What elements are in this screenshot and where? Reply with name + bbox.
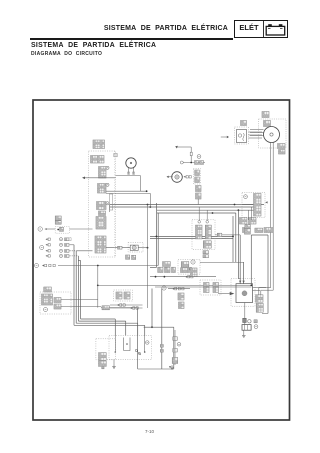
junction bus B1	[149, 206, 151, 208]
dashed box chain	[193, 169, 200, 185]
horn terminal symbols	[128, 172, 130, 174]
bus left corner to row	[150, 267, 156, 269]
wire-code row 3	[46, 250, 51, 252]
horn H1	[126, 158, 136, 168]
battery icon in tab	[265, 23, 287, 36]
circled 7	[162, 286, 166, 290]
wire ticks	[160, 345, 163, 348]
switch wire right	[215, 234, 240, 236]
arrow to turn signals	[167, 176, 169, 178]
row y162 connector pair	[195, 161, 199, 165]
wire-code row 6	[42, 264, 55, 266]
block pair right	[255, 228, 263, 232]
inner vertical wire	[161, 289, 163, 370]
circled 12	[197, 155, 201, 159]
connector block J8	[95, 236, 106, 253]
motor lead connectors	[256, 295, 263, 302]
rectifier body	[237, 130, 247, 143]
battery ground	[243, 330, 245, 333]
connector label block J1	[93, 140, 105, 149]
diode unit dashed box	[128, 242, 143, 252]
tab marker on enclosure	[114, 153, 117, 156]
connector block J7	[96, 217, 106, 230]
small blocks row top	[126, 255, 130, 259]
vertical connector riser	[97, 266, 99, 286]
cable to motor stack	[262, 312, 268, 314]
wire into battery	[244, 323, 246, 325]
arrow into relay	[230, 292, 235, 295]
connector block J4	[98, 184, 107, 194]
center vertical x147	[147, 205, 149, 309]
connector block J5	[97, 202, 107, 210]
lower box left wire	[137, 308, 139, 369]
component S2 small	[55, 216, 61, 220]
main switch row	[38, 227, 42, 231]
fuse box lead	[242, 204, 254, 206]
dashed box small pair	[200, 280, 221, 295]
chain blocks below	[196, 186, 202, 192]
magneto leads left ticks	[250, 129, 264, 131]
circled 11	[177, 343, 181, 347]
long row wire y276	[150, 276, 216, 278]
wire horn feed	[116, 175, 141, 177]
terminal mark	[254, 320, 257, 323]
corner drop x150	[149, 193, 151, 207]
junction right	[250, 285, 252, 287]
section subheading	[31, 51, 102, 57]
right loop top connector	[264, 228, 273, 233]
wire relay to battery	[244, 303, 246, 319]
wire long to right	[58, 265, 158, 267]
starter relay coil	[242, 291, 247, 296]
wire left drop	[109, 205, 111, 213]
transistor comp below	[245, 225, 251, 229]
CDI label block	[44, 287, 52, 292]
junction top right of switch box	[212, 212, 214, 214]
handlebar switch dashed box	[192, 220, 215, 250]
mid-right wire out	[200, 261, 244, 263]
rectifier 2 body	[99, 353, 107, 361]
switch pole 1	[114, 336, 116, 353]
inline fuse on chain	[190, 152, 192, 155]
flasher relay	[172, 172, 183, 183]
bus wire B	[110, 206, 254, 208]
chain drop wire	[190, 147, 192, 163]
left bus drops to switch box	[144, 325, 146, 335]
junction diode-center	[147, 247, 149, 249]
mid-right blocks	[181, 262, 189, 267]
connector row trio	[158, 267, 163, 272]
dashed box mid-right	[178, 259, 200, 274]
ground under switch	[112, 365, 116, 369]
arrow stub left of column	[82, 177, 85, 180]
CDI dashed box	[40, 292, 71, 314]
wire mid horizontal 2	[101, 307, 138, 309]
wires fuse to bus	[247, 210, 249, 220]
wire motor lead 1	[270, 143, 272, 288]
circled 9	[254, 325, 258, 329]
start switch symbols	[191, 268, 198, 277]
junction bus A1	[147, 204, 149, 206]
small column right	[178, 293, 184, 300]
junction 191	[146, 190, 148, 192]
magneto connector B	[264, 121, 271, 127]
CDI connector right	[54, 298, 61, 303]
main switch dashed box	[109, 336, 152, 360]
wire y287 segment	[155, 286, 251, 288]
row y162 contact circle	[180, 161, 183, 164]
page number	[0, 429, 299, 434]
tiny blocks below box	[203, 251, 209, 254]
horn lead left	[128, 168, 130, 175]
wire mid horizontal	[98, 284, 252, 286]
wire-code row 4	[46, 255, 51, 257]
switch pole 4	[144, 336, 146, 353]
inline connector mid	[102, 306, 110, 310]
flasher connector symbols	[184, 176, 192, 178]
wire down x152	[151, 289, 153, 328]
rectifier to magneto wires	[249, 131, 263, 133]
motor wire bends	[259, 287, 271, 289]
rectifier dashed box	[235, 127, 249, 144]
circled fuse	[244, 195, 248, 199]
fuse strip	[254, 194, 262, 217]
junction x152	[151, 326, 153, 328]
main switch dashed box small	[55, 227, 69, 234]
wire drop to junction row	[139, 176, 141, 192]
pin circle 1	[106, 166, 109, 169]
bus rect outer top	[157, 209, 254, 211]
circled 10	[146, 341, 150, 345]
label block mid	[163, 262, 171, 267]
magneto dotted box	[259, 119, 287, 148]
pin circle 3	[106, 202, 109, 205]
connector block J2	[91, 156, 105, 164]
dashed enclosure main-switch harness	[89, 151, 116, 257]
connector pair right of magneto	[278, 144, 286, 149]
junction chain row	[190, 162, 192, 164]
center row symbols	[117, 304, 125, 306]
switch column 1	[196, 225, 203, 239]
switch pole 3	[137, 336, 139, 350]
CDI wires right	[61, 299, 98, 301]
connector block J6	[99, 211, 106, 216]
wire-code row 1	[46, 238, 51, 240]
magneto stator	[264, 127, 280, 143]
relay right wire	[253, 287, 267, 289]
left bus top stub	[78, 260, 80, 262]
diode unit body	[130, 245, 138, 250]
section heading	[31, 42, 156, 49]
chain connector b	[173, 349, 178, 353]
switch ground lead	[113, 360, 115, 365]
chain ground	[170, 365, 174, 369]
switch contacts below	[203, 241, 211, 248]
rectifier 2 dashed box	[96, 339, 116, 360]
diode unit circle	[132, 246, 136, 250]
bus wire A	[110, 204, 264, 206]
double mid wires	[150, 235, 233, 237]
chain connector c	[172, 358, 178, 364]
rectifier 2 foot	[102, 367, 104, 369]
wire pair from column	[106, 190, 147, 192]
switch pole 2 loop	[124, 338, 130, 351]
mid-right row	[181, 268, 190, 273]
bus rect inner top	[157, 212, 236, 214]
starter relay body	[236, 284, 253, 303]
junction row6	[97, 265, 99, 267]
lower box top	[144, 326, 174, 328]
arrow into rectifier	[227, 136, 229, 138]
fuse arrow right	[265, 201, 267, 203]
bus rect left verticals	[155, 203, 157, 268]
bottom right chain wire	[174, 330, 176, 365]
row y162 wire	[183, 162, 205, 164]
chain wire to bus	[197, 199, 199, 205]
battery B1	[242, 325, 251, 331]
page header title	[0, 25, 228, 32]
dotted vertical guide	[114, 151, 116, 257]
wire motor lead 2	[272, 143, 274, 291]
wire-code row 2	[46, 244, 51, 246]
rectifier label	[241, 121, 247, 126]
arrow feed top	[175, 146, 178, 149]
relay feed arrowheads	[239, 281, 241, 284]
circled 5	[34, 263, 38, 267]
connectors below fuse box	[240, 218, 248, 225]
circled 4	[40, 245, 44, 249]
main switch row wire right	[70, 228, 93, 230]
circled 6	[43, 307, 47, 311]
small blocks	[243, 228, 248, 233]
switch column 2	[205, 225, 211, 239]
center rows wires	[110, 304, 143, 306]
switch stubs to bus	[198, 207, 200, 221]
wire diode unit to center vertical	[138, 247, 147, 249]
switch pin circles	[198, 221, 201, 224]
ELET tab box	[234, 20, 288, 38]
bus rect right verticals	[237, 210, 239, 278]
diode block center	[114, 290, 133, 301]
fuse box dotted enclosure	[242, 193, 265, 218]
wire right of circled 7	[168, 288, 190, 290]
starter relay dashed box	[231, 279, 255, 307]
block below	[244, 229, 250, 234]
diagram frame	[33, 100, 290, 420]
switch contact circles	[135, 349, 137, 351]
lower box bottom	[138, 368, 174, 370]
circled 8	[191, 260, 195, 264]
ring terminal	[248, 320, 251, 323]
right loop rect	[251, 234, 268, 236]
horn lead right	[133, 168, 135, 175]
relay feed wires	[239, 235, 241, 284]
left riser rect	[110, 194, 113, 210]
pin circle 2	[106, 183, 109, 186]
left bus bottom bends	[74, 324, 145, 326]
chain connector a	[173, 337, 178, 341]
lower box right	[173, 327, 175, 369]
inline fuse main	[243, 318, 247, 322]
chain connector cells	[195, 170, 200, 176]
wire into diode unit	[106, 247, 130, 249]
header rule	[30, 38, 233, 40]
junction bus A2	[234, 204, 236, 206]
CDI body	[42, 294, 53, 305]
left bus verticals	[73, 245, 75, 325]
connector block J3	[99, 167, 107, 179]
magneto connector A	[262, 112, 269, 118]
